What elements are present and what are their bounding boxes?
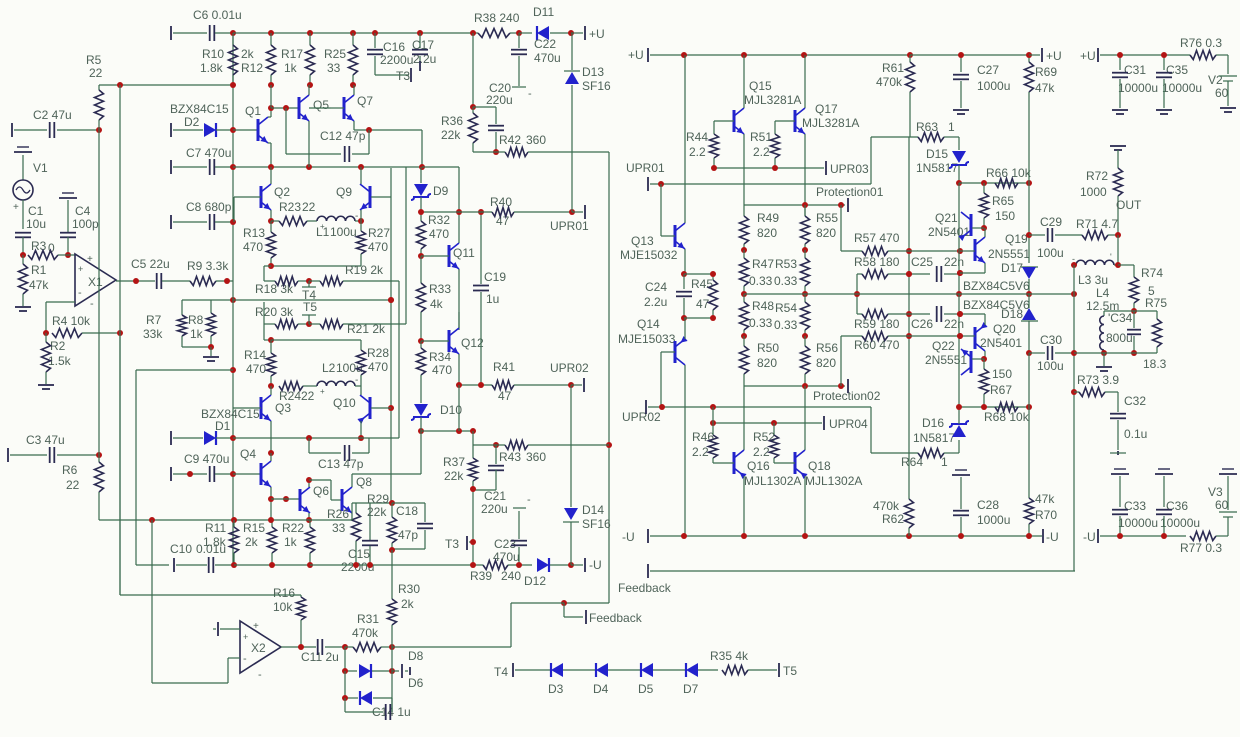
node: X2 output / R16 bottom [298,644,304,650]
X2 + input terminal [217,622,219,636]
Q20 base wire [960,335,975,337]
node: UPR02 row tap x=713 [710,404,716,410]
svg-text:10000u: 10000u [1118,516,1158,530]
node: C1/R3/R1 junction [20,252,26,258]
output bus vertical x=1074 [1073,265,1075,571]
op-amp X2 [240,621,281,673]
svg-text:R72: R72 [1086,169,1108,183]
svg-text:C26: C26 [911,317,933,331]
node: R36 top [470,104,476,110]
node: C25 right [957,270,963,276]
node: R55 top [802,202,808,208]
UPR04 row y=423 [713,422,822,424]
Q18 base wire [775,462,795,464]
svg-text:C28: C28 [977,498,999,512]
node rail x=310 [307,30,313,36]
Q16 base wire [713,462,734,464]
svg-text:C5 22u: C5 22u [131,257,170,271]
wire UPR01 row corner to R63 [870,137,872,184]
svg-text:Q16: Q16 [747,459,770,473]
svg-text:MJL1302A: MJL1302A [805,474,862,488]
svg-text:T4: T4 [494,665,508,679]
wire Protection02 bracket x=841 [840,336,842,386]
wire R5 top rail y=85 [99,84,233,86]
svg-text:R50: R50 [757,341,779,355]
svg-text:C2 47u: C2 47u [33,108,72,122]
Q20 collector wire [984,351,986,359]
svg-text:R10: R10 [202,47,224,61]
node: D2/R10/Q1 base [230,127,236,133]
svg-text:Q19: Q19 [1005,232,1028,246]
svg-text:2N5551: 2N5551 [988,247,1030,261]
svg-text:R22: R22 [282,521,304,535]
svg-text:R31: R31 [357,612,379,626]
node: R3/C4/X1+ junction [65,252,71,258]
R66 row y=183 [959,182,1029,184]
svg-text:470k: 470k [873,499,900,513]
svg-text:0.33: 0.33 [749,316,773,330]
node: R33 bottom / Q12 base [418,338,424,344]
wire R62 top column x=909 [908,137,910,499]
terminal Protection02 [847,379,849,393]
ground under R2 [38,384,54,386]
node: UPR02 dot [659,404,665,410]
column x=1029 R66 to D17 [1028,183,1030,263]
svg-text:-U: -U [589,558,602,572]
svg-text:+: + [253,621,259,632]
wire y=167 row to x=459 corner [422,166,459,168]
svg-text:Q6: Q6 [313,484,329,498]
top rail y=33 to R38 [233,32,473,34]
wire D10 row y=431 [421,430,474,432]
svg-text:240: 240 [501,569,521,583]
node: R11 top [231,517,237,523]
node: Q5 emitter on C7 row [306,164,312,170]
node: C30 row [1026,350,1032,356]
svg-text:Q21: Q21 [935,211,958,225]
svg-text:C24: C24 [645,280,667,294]
node: feedback vertical x=120 top [117,82,123,88]
svg-text:MJE15033: MJE15033 [618,332,676,346]
svg-text:+: + [78,264,83,274]
svg-text:2.2: 2.2 [753,145,770,159]
svg-text:MJL3281A: MJL3281A [802,116,859,130]
wire Q8 row links [351,503,353,520]
Q21 base wire [972,227,984,229]
svg-text:2N5551: 2N5551 [925,353,967,367]
Q2 emitter wire [270,210,272,221]
node: R49 bottom [741,247,747,253]
Q1 collector wire [268,116,271,118]
svg-text:+U: +U [589,27,605,41]
svg-text:R51: R51 [750,130,772,144]
node: D16 top [956,404,962,410]
node: R60 right on x=909 [906,333,912,339]
node rail x=420 [417,30,423,36]
node: C24 top [681,271,687,277]
node: R65 top [981,180,987,186]
svg-text:0.33: 0.33 [749,274,773,288]
wire +U rail down to R36 [472,33,474,107]
node: C34 bottom [1131,350,1137,356]
node: Q4 emitter tap Q6 base [268,496,274,502]
svg-text:C10: C10 [170,542,192,556]
svg-text:1: 1 [941,455,948,469]
svg-text:R70: R70 [1035,508,1057,522]
node: C35 top [1161,52,1167,58]
node: rail x=1074 [1071,291,1077,297]
Q6 collector wire [308,480,310,487]
node: D10 bottom y=431 [418,428,424,434]
svg-text:D11: D11 [533,5,554,19]
Q19 collector wire [984,228,986,237]
capacitor C36b parallel [473,106,496,108]
svg-text:D3: D3 [548,682,564,696]
svg-text:R1: R1 [31,263,47,277]
svg-text:C31: C31 [1124,63,1146,77]
node: x=152 on y=520 [149,517,155,523]
svg-text:Q11: Q11 [453,246,475,260]
node: Q1 collector to Q5 base line [268,105,274,111]
svg-text:T5: T5 [783,664,797,678]
terminal after D8 [392,670,399,672]
svg-text:Q3: Q3 [275,401,291,415]
node: R29 top [389,500,395,506]
svg-text:D12: D12 [524,574,546,588]
wire R21 corner up x=406 to C7 row [405,167,407,324]
node: x=459 on D10 row [456,428,462,434]
node: X1 output dot [133,278,139,284]
node: R68 right [1026,404,1032,410]
svg-text:R41: R41 [493,360,515,374]
wire x=152 from y=520 to X2 [151,520,153,683]
svg-text:MJL1302A: MJL1302A [744,474,801,488]
wire y=340 row to R28 top [271,339,361,341]
node: column y=273 [957,270,963,276]
svg-text:R76 0.3: R76 0.3 [1180,36,1222,50]
Q5 collector wire [308,85,310,95]
svg-text:UPR04: UPR04 [829,417,868,431]
Q13 collector wire [684,55,686,223]
node: R39 left [470,562,476,568]
svg-text:Q17: Q17 [815,102,838,116]
node: R74 bottom [1131,308,1137,314]
node: R30 bottom / R31 right [389,644,395,650]
node: R57 right on x=909 [906,248,912,254]
svg-text:R25: R25 [324,47,346,61]
svg-text:360: 360 [526,133,546,147]
wire x=459 to R40 row [458,167,460,212]
node: D1 right on x=233 [230,435,236,441]
node rail x=744 [741,52,747,58]
svg-text:Q8: Q8 [356,475,372,489]
svg-text:33: 33 [327,61,341,75]
svg-text:R14: R14 [244,348,266,362]
svg-text:470: 470 [246,362,266,376]
wire V1 to C1 [22,200,24,229]
svg-text:0.1u: 0.1u [1124,427,1147,441]
svg-text:R43: R43 [499,450,521,464]
Q1 emitter wire [268,142,271,144]
wire R22 top [309,520,311,527]
node: R17 bottom [307,82,313,88]
svg-text:L4: L4 [1096,286,1110,300]
svg-text:R8: R8 [188,313,204,327]
svg-text:R34: R34 [429,350,451,364]
svg-text:R71 4.7: R71 4.7 [1076,217,1118,231]
node: R39 right / C23 bottom [516,562,522,568]
svg-text:150: 150 [995,209,1015,223]
svg-text:-: - [78,287,82,299]
node: D8 left [342,668,348,674]
svg-text:Q15: Q15 [749,79,772,93]
Q16 emitter wire to -U row [743,476,745,536]
node: R59 row on x=909 [906,311,912,317]
Q11 base wire [421,255,449,257]
svg-text:100u: 100u [1037,246,1064,260]
svg-text:22: 22 [301,389,315,403]
svg-text:Q18: Q18 [808,459,831,473]
node: R14 top [268,337,274,343]
node: x=422 on C7 row [419,164,425,170]
svg-text:47p: 47p [398,528,418,542]
svg-text:R63: R63 [916,120,938,134]
svg-text:C8 680p: C8 680p [186,200,232,214]
svg-text:Q22: Q22 [932,339,955,353]
svg-text:+: + [13,202,19,213]
svg-text:18.3: 18.3 [1143,357,1167,371]
node: D8 right [389,668,395,674]
node: C3/R6 junction [96,452,102,458]
svg-text:Q5: Q5 [313,98,329,112]
svg-text:R48: R48 [752,299,774,313]
column x=960 D15 to output rail [958,183,960,294]
Q9 collector wire [360,167,362,184]
svg-text:MJL3281A: MJL3281A [744,93,801,107]
svg-text:2N5401: 2N5401 [980,336,1022,350]
svg-text:R69: R69 [1035,65,1057,79]
svg-text:D8: D8 [408,649,424,663]
node: D9 bottom on y=212 [418,209,424,215]
svg-text:D4: D4 [593,682,609,696]
wire R31 row to corner x=511 [392,646,511,648]
op-amp X1 [75,254,116,306]
svg-text:1000u: 1000u [977,513,1010,527]
svg-text:R13: R13 [243,226,265,240]
wire Q7 emitter line corner down x=422 [421,130,423,167]
wire UPR02 row corner to R64 [870,407,872,453]
Q19 emitter wire [984,263,986,273]
svg-text:470: 470 [432,363,452,377]
node: R45 top [710,271,716,277]
node rail x=804 [801,52,807,58]
node: T5 tap [306,321,312,327]
svg-text:1N5817: 1N5817 [913,431,955,445]
Q15 emitter column down [743,134,745,216]
svg-text:1u: 1u [486,292,499,306]
row y=385 R41 [459,384,492,386]
node: R45 bottom [710,315,716,321]
node: Q10 emitter on y=438 row [358,435,364,441]
svg-text:R28: R28 [367,346,389,360]
svg-text:Q13: Q13 [631,234,654,248]
Q17 collector wire [804,55,806,108]
node: D6 left [342,695,348,701]
svg-text:R44: R44 [686,130,708,144]
svg-text:Feedback: Feedback [589,611,643,625]
svg-text:100u: 100u [1037,359,1064,373]
node rail x=353 [350,30,356,36]
svg-text:R73 3.9: R73 3.9 [1077,373,1119,387]
Q2 collector wire [270,167,272,184]
node: R25 bottom [350,82,356,88]
svg-text:R59 180: R59 180 [854,317,900,331]
wire R19 corner down x=399 [398,281,400,438]
wire Protection01 bracket x=841 [840,205,842,251]
UPR03 row y=168 [714,167,824,169]
node: C28 bottom [958,533,964,539]
Q7 emitter wire to y=130 [353,121,355,130]
Q17 emitter column down [804,134,806,216]
svg-text:C1: C1 [28,204,44,218]
Q10 base wire [371,407,391,409]
svg-text:C9 470u: C9 470u [184,452,229,466]
node: x=459 y=212 [456,209,462,215]
node: L1 right [358,218,364,224]
svg-text:1: 1 [948,120,955,134]
svg-text:470: 470 [368,360,388,374]
node: C8 right on x=233 [230,219,236,225]
Q9 base wire [371,196,391,198]
svg-text:C33: C33 [1124,499,1146,513]
node: R51 bottom [772,165,778,171]
node: Q1 emitter on C7 row [268,164,274,170]
node: C15 bottom [367,562,373,568]
node: T3 tap [470,539,476,545]
node: R70 bottom [1026,533,1032,539]
node: -U terminal dot [568,562,574,568]
node: D17 on output rail [1026,291,1032,297]
node: y=300 row right dot [388,297,394,303]
svg-text:60: 60 [1215,498,1229,512]
ground under C31 [1112,109,1128,111]
node: C27 top [958,52,964,58]
svg-text:SF16: SF16 [582,517,611,531]
node: R46 top [710,420,716,426]
Q14 collector wire [684,365,686,536]
wire y=300 row to x=393 [233,299,391,301]
Q3 emitter wire [270,421,272,453]
svg-text:47k: 47k [1035,492,1055,506]
svg-text:R6: R6 [62,463,78,477]
X2 - input wire [228,657,240,659]
svg-text:33: 33 [332,521,346,535]
node: x=391 y=300 [388,297,394,303]
svg-text:C36: C36 [1166,499,1188,513]
svg-text:R75: R75 [1145,296,1167,310]
node: C10/R11 bottom [231,562,237,568]
svg-text:R67: R67 [990,383,1012,397]
wire R42 row corner down x=609 [608,152,610,603]
wire x=713 UPR02 to UPR04 [712,407,714,423]
svg-text:V2: V2 [1208,73,1223,87]
svg-text:T3: T3 [396,69,410,83]
node: R55 bottom [802,247,808,253]
R68 row y=407 [959,406,1029,408]
svg-text:33k: 33k [143,327,163,341]
Q17 base wire [775,120,795,122]
Q20 emitter wire [984,314,986,325]
node: Feedback junction [561,600,567,606]
node: R8 bottom [208,344,214,350]
svg-text:UPR01: UPR01 [626,161,665,175]
svg-text:Feedback: Feedback [618,581,672,595]
node: R42 left [493,149,499,155]
svg-text:C12 47p: C12 47p [320,129,366,143]
svg-text:220u: 220u [486,93,513,107]
node: R43 left / C21 top [493,442,499,448]
wire Q1 base [233,129,258,131]
Q15 collector wire [743,55,745,108]
svg-text:0.33: 0.33 [774,274,798,288]
svg-text:R20 3k: R20 3k [255,305,294,319]
X1 inverting input wire [46,301,75,303]
node: x=391 y=408 [388,405,394,411]
node: L4 bottom [1101,350,1107,356]
svg-text:R58 180: R58 180 [854,255,900,269]
node: R52 top [771,420,777,426]
Q18 emitter wire to -U row [804,476,806,536]
svg-text:470: 470 [243,240,263,254]
node: C26 right [957,311,963,317]
svg-text:'C34: 'C34 [1108,311,1133,325]
svg-text:R23: R23 [279,200,301,214]
svg-text:C35: C35 [1166,63,1188,77]
node: C2/R5 junction [96,127,102,133]
node: R58 right C25 left [906,271,912,277]
Q4 collector wire [270,453,272,461]
svg-text:BZX84C5V6: BZX84C5V6 [963,298,1030,312]
svg-text:820: 820 [757,356,777,370]
svg-text:-: - [527,494,531,506]
svg-text:C21: C21 [484,489,506,503]
ground under C35 [1156,109,1172,111]
wire C8 to Q2 base corner [233,197,235,222]
svg-text:1.8k: 1.8k [200,61,224,75]
node: column y=294 [956,291,962,297]
terminal Protection01 [847,198,849,212]
row y=520 [99,519,352,521]
svg-text:10000u: 10000u [1162,81,1202,95]
node: R60/Q20 base/column [957,333,963,339]
Q13 emitter wire [684,249,686,274]
svg-text:2k: 2k [241,47,255,61]
svg-text:0.01u: 0.01u [196,542,226,556]
node: C6/R10 top [230,30,236,36]
ground under L4 [1103,353,1105,366]
svg-text:UPR03: UPR03 [830,162,869,176]
node: R14 bottom / R24 left [268,383,274,389]
svg-text:Q14: Q14 [637,317,660,331]
node: R69 top [1026,52,1032,58]
svg-text:L3 3u: L3 3u [1078,273,1108,287]
svg-text:D17: D17 [1001,261,1023,275]
node: R10 bottom on y=85 rail [230,82,236,88]
svg-text:C19: C19 [484,270,506,284]
svg-text:C25: C25 [911,255,933,269]
svg-text:R66 10k: R66 10k [986,166,1032,180]
svg-text:C6 0.01u: C6 0.01u [193,8,242,22]
